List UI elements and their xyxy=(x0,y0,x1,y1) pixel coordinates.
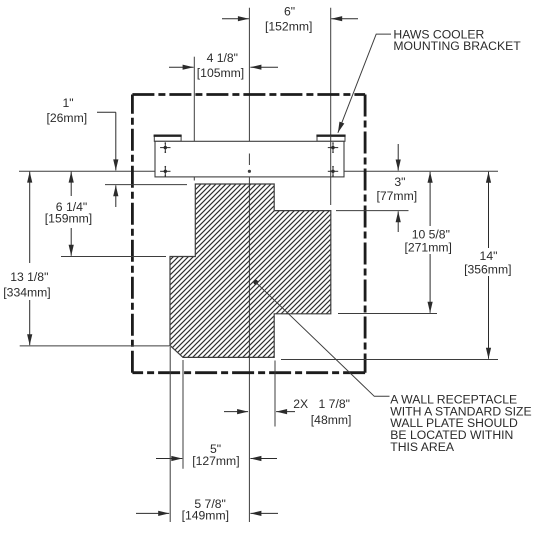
extension line x=170.2 xyxy=(169,347,171,522)
extension line y=184.6 xyxy=(105,184,187,186)
svg-text:1 7/8": 1 7/8" xyxy=(319,397,350,411)
center line vertical xyxy=(248,8,250,522)
svg-text:[356mm]: [356mm] xyxy=(464,263,511,277)
svg-text:[127mm]: [127mm] xyxy=(192,454,239,468)
extension x=330.7 inside bracket xyxy=(330,135,332,177)
svg-text:6": 6" xyxy=(284,5,295,19)
screw hole marks xyxy=(160,142,338,177)
extension line x=330.7 (right screw column / hatch right edge) xyxy=(330,8,332,205)
svg-text:[159mm]: [159mm] xyxy=(45,212,92,226)
extension line y=210.6 xyxy=(336,210,409,212)
svg-text:[48mm]: [48mm] xyxy=(311,413,352,427)
svg-text:1": 1" xyxy=(62,96,73,110)
dimension 10 5/8" xyxy=(429,172,431,313)
screw hole mark lower-left xyxy=(160,166,170,177)
svg-text:MOUNTING BRACKET: MOUNTING BRACKET xyxy=(393,39,521,53)
dimension 14" xyxy=(488,172,490,359)
svg-text:3": 3" xyxy=(394,175,405,189)
dimension 6" top xyxy=(222,18,358,20)
screw hole mark upper-right xyxy=(328,142,338,153)
svg-text:[152mm]: [152mm] xyxy=(265,20,312,34)
extension line y=359.5 xyxy=(281,359,498,361)
extension line x=183 xyxy=(182,360,184,469)
svg-text:13 1/8": 13 1/8" xyxy=(10,270,48,284)
extension line y=313.5 xyxy=(338,313,437,315)
dimension 5" xyxy=(156,458,277,460)
bracket right tab xyxy=(316,135,345,141)
svg-text:[334mm]: [334mm] xyxy=(3,285,50,299)
svg-text:14": 14" xyxy=(480,249,498,263)
extension line y=345.9 xyxy=(20,345,171,347)
svg-text:4 1/8": 4 1/8" xyxy=(207,51,238,65)
extension line y=256.5 xyxy=(61,256,166,258)
svg-text:[26mm]: [26mm] xyxy=(46,111,87,125)
svg-text:[105mm]: [105mm] xyxy=(197,66,244,80)
leader wall receptacle note xyxy=(253,280,258,285)
bracket left tab xyxy=(154,135,182,141)
svg-text:[271mm]: [271mm] xyxy=(404,241,451,255)
svg-text:10 5/8": 10 5/8" xyxy=(412,227,450,241)
dimension 2X 1 7/8" xyxy=(224,411,295,413)
screw hole mark upper-left xyxy=(160,142,170,153)
dimension 5 7/8" xyxy=(136,512,278,514)
hatched wall receptacle area xyxy=(170,184,331,357)
dash-dot mounting area border xyxy=(132,95,365,373)
leader HAWS COOLER MOUNTING BRACKET xyxy=(338,34,391,133)
reference line y=171.2 right segment xyxy=(344,170,498,172)
svg-text:2X: 2X xyxy=(293,397,308,411)
svg-text:[149mm]: [149mm] xyxy=(182,508,229,522)
reference line y=171.2 left segment xyxy=(19,170,155,172)
screw hole mark lower-right xyxy=(328,166,338,177)
dimension 3" right xyxy=(397,144,399,232)
bracket body xyxy=(155,141,344,177)
svg-text:[77mm]: [77mm] xyxy=(376,189,417,203)
dimension 4 1/8" xyxy=(169,66,278,68)
dimension 6 1/4" xyxy=(70,172,72,256)
dimension 13 1/8" xyxy=(29,172,31,346)
svg-text:THIS AREA: THIS AREA xyxy=(390,440,455,454)
extension line x=275 xyxy=(274,361,276,427)
extension line x=194.3 (hatch left edge) xyxy=(193,57,195,181)
center line dashes inside bracket xyxy=(248,154,250,166)
